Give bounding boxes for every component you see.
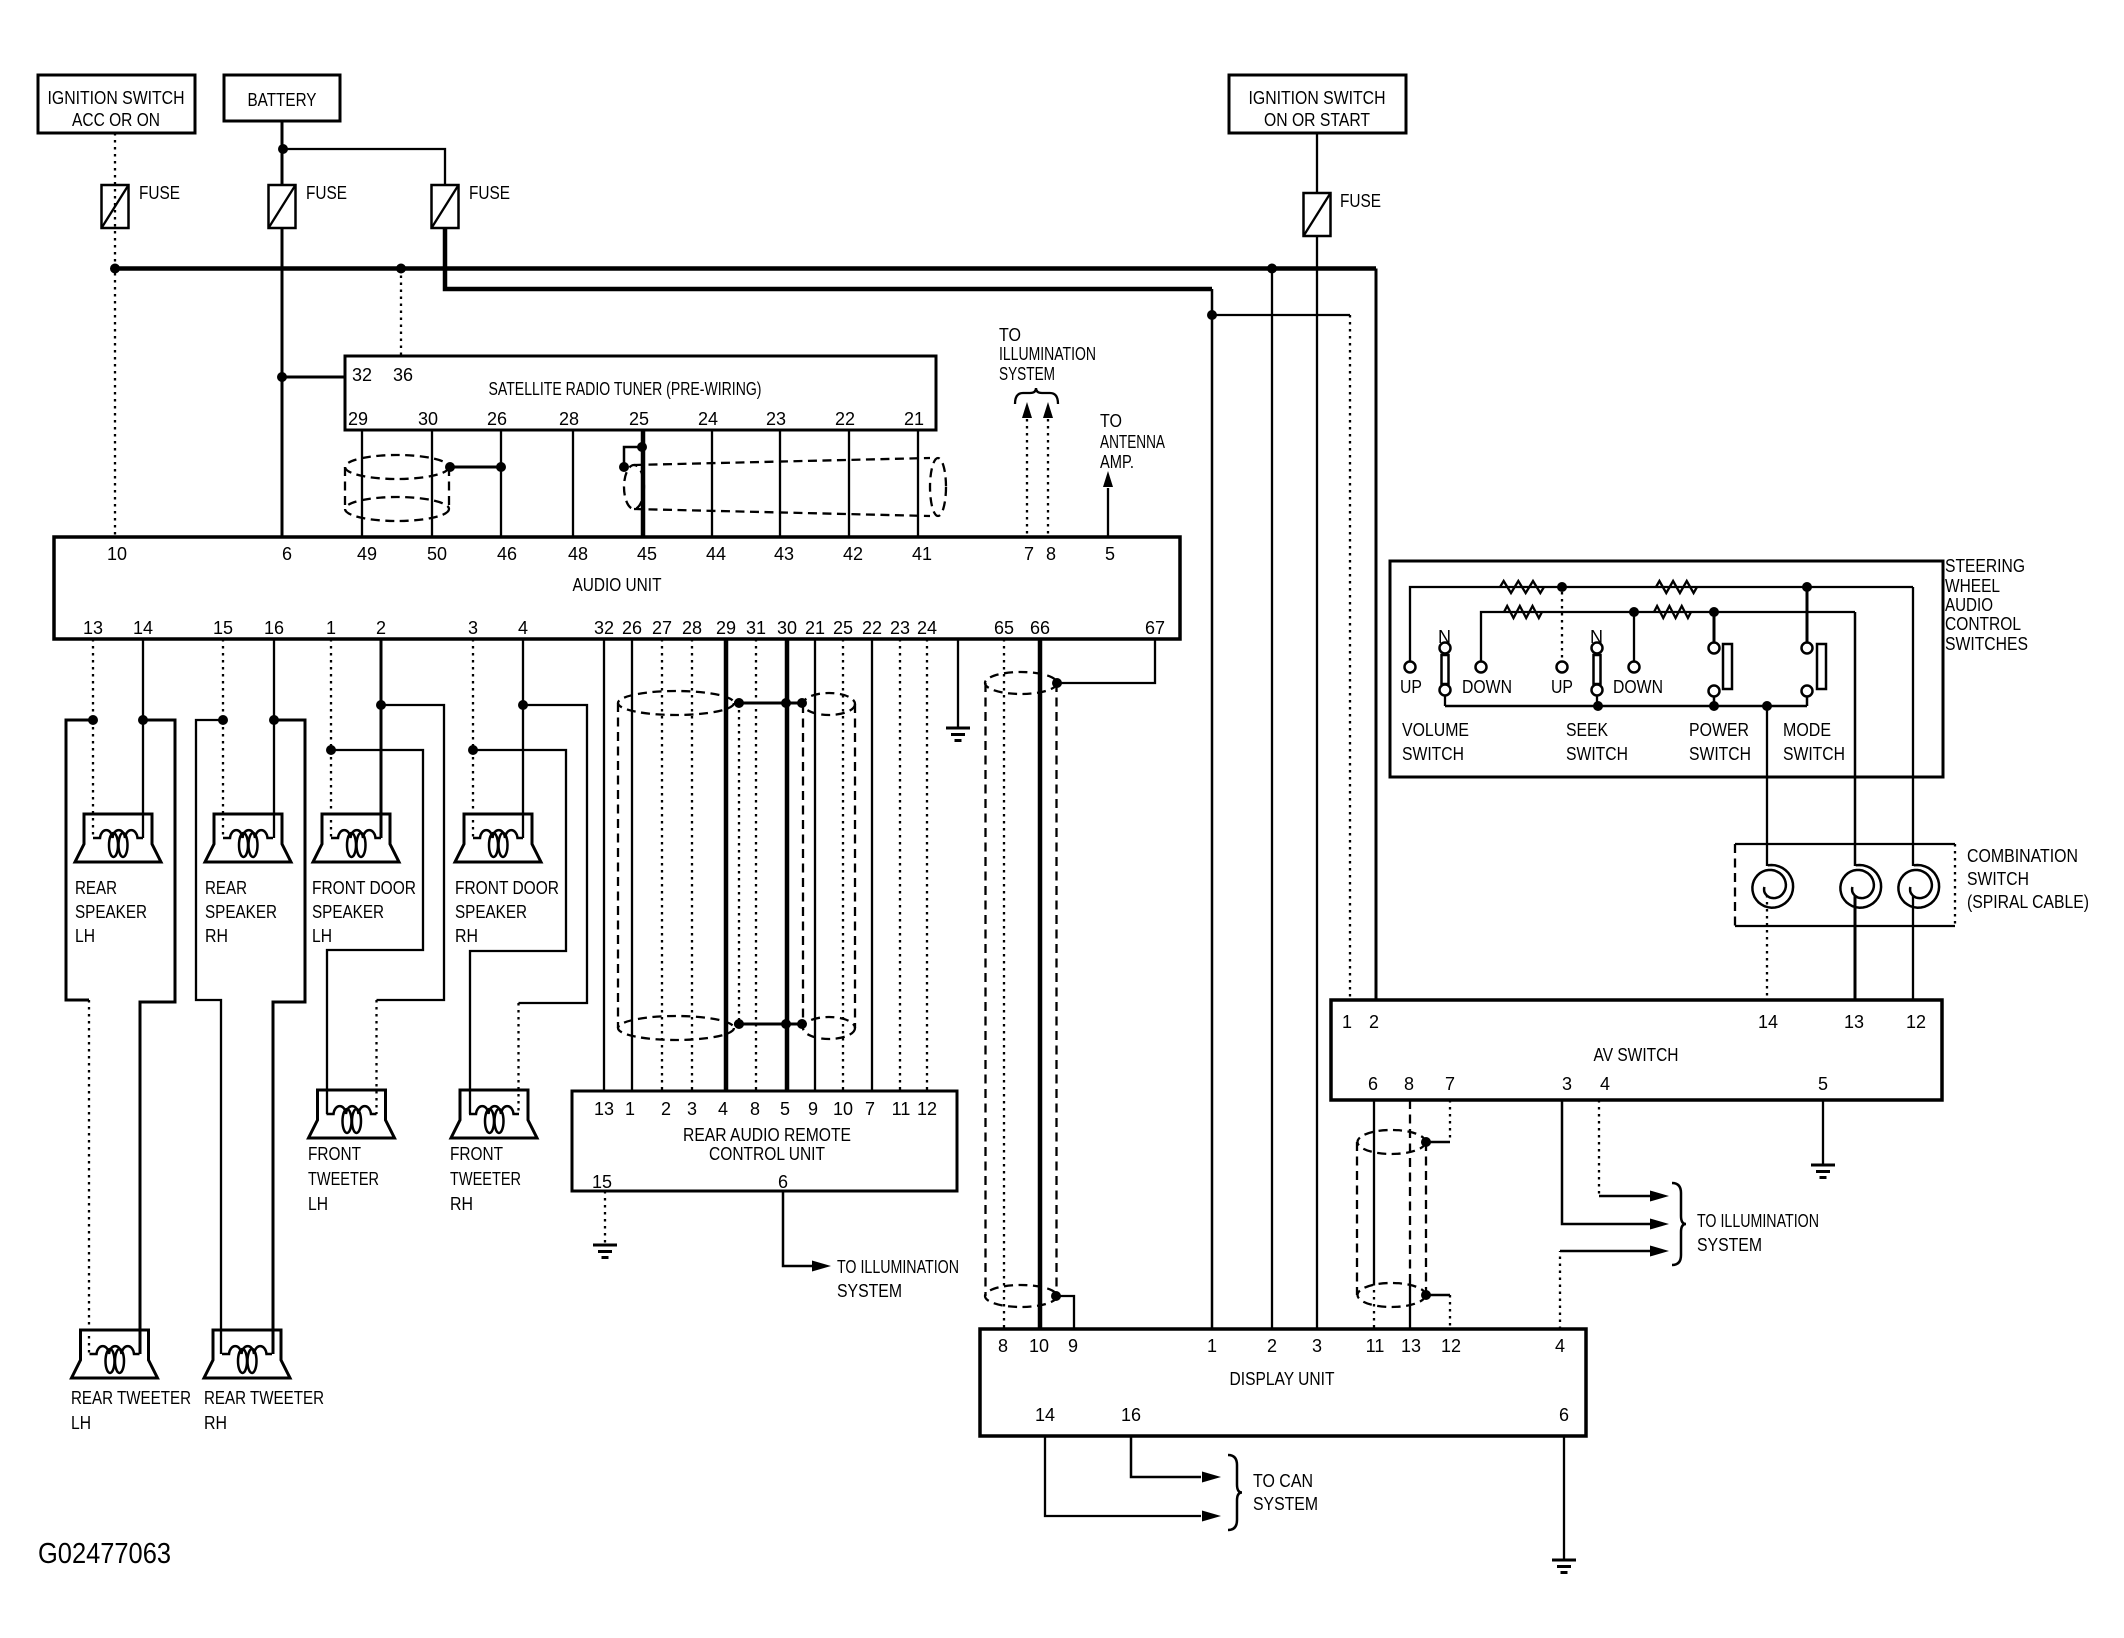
svg-text:REAR: REAR <box>205 878 247 898</box>
svg-text:G02477063: G02477063 <box>38 1538 171 1570</box>
label steering wheel audio control switches <box>1945 556 2028 654</box>
wire battery down <box>281 121 284 185</box>
combination switch box <box>1735 844 1955 926</box>
wire battery branch to fuse3 <box>283 149 445 185</box>
wire AV 4 dotted to illumination arrow <box>1599 1100 1669 1202</box>
rear speaker RH <box>205 814 291 862</box>
svg-text:25: 25 <box>629 409 649 429</box>
label rear tweeter LH <box>71 1388 191 1433</box>
svg-text:RH: RH <box>450 1194 473 1214</box>
wire front tweeter RH left route <box>470 750 566 1114</box>
wire 2 to front door speaker LH <box>380 705 383 838</box>
svg-text:IGNITION SWITCH: IGNITION SWITCH <box>48 88 185 108</box>
ground (remote unit) <box>593 1245 617 1258</box>
shielded cable S3 (large) around remote wires <box>618 691 739 1040</box>
arrow to illumination 2 (audio pin 8) <box>1043 402 1053 537</box>
svg-text:MODE: MODE <box>1783 720 1831 740</box>
wire power upper from row2 thick <box>1713 612 1716 642</box>
junction bus at ACC <box>110 264 120 274</box>
svg-text:21: 21 <box>904 409 924 429</box>
svg-text:5: 5 <box>1818 1074 1828 1094</box>
svg-text:14: 14 <box>1035 1405 1055 1425</box>
seek switch DOWN contact <box>1613 662 1663 698</box>
bus battery-fused horizontal <box>445 228 1212 289</box>
svg-text:SYSTEM: SYSTEM <box>837 1281 902 1301</box>
svg-text:67: 67 <box>1145 618 1165 638</box>
svg-text:SWITCH: SWITCH <box>1689 744 1751 764</box>
svg-text:46: 46 <box>497 544 517 564</box>
svg-text:3: 3 <box>1312 1336 1322 1356</box>
wire 16 to rear speaker RH coil <box>273 720 275 838</box>
svg-text:16: 16 <box>264 618 284 638</box>
junction row1 mode <box>1802 582 1812 592</box>
label mode switch <box>1783 720 1845 764</box>
svg-text:10: 10 <box>107 544 127 564</box>
svg-text:TO: TO <box>999 325 1021 345</box>
svg-text:10: 10 <box>1029 1336 1049 1356</box>
wire steering row1 to spiral 3 <box>1912 587 1914 866</box>
wire bus corner down to AV pin 2 <box>1375 269 1378 1001</box>
svg-text:ACC OR ON: ACC OR ON <box>72 110 160 130</box>
rear audio remote control unit box <box>572 1091 957 1192</box>
wire steering to spiral 1 <box>1766 706 1768 866</box>
junction row2 power <box>1709 607 1719 617</box>
rear speaker LH <box>75 814 161 862</box>
ignition switch ON/START box <box>1229 75 1406 133</box>
svg-text:13: 13 <box>83 618 103 638</box>
svg-text:3: 3 <box>687 1099 697 1119</box>
svg-text:65: 65 <box>994 618 1014 638</box>
resistor R1 <box>1500 581 1544 593</box>
svg-text:4: 4 <box>1555 1336 1565 1356</box>
svg-text:AUDIO UNIT: AUDIO UNIT <box>573 575 662 595</box>
wire spiral1 dotted to AV 14 <box>1766 895 1768 1000</box>
rear tweeter LH <box>72 1330 158 1378</box>
svg-text:7: 7 <box>865 1099 875 1119</box>
wire loop rear tweeter LH right <box>140 720 175 1354</box>
front tweeter LH <box>309 1090 395 1138</box>
svg-text:FUSE: FUSE <box>1340 191 1381 211</box>
wire remote pin 6 to illumination arrow <box>783 1191 831 1272</box>
svg-text:FRONT DOOR: FRONT DOOR <box>312 878 416 898</box>
volume switch DOWN contact <box>1462 662 1512 698</box>
junction 16 <box>269 715 279 725</box>
wire 1 to front door speaker LH dotted <box>330 750 332 838</box>
junction satellite pin32 tap <box>277 372 287 382</box>
fuse F2 (battery) <box>269 183 348 228</box>
svg-text:LH: LH <box>312 926 332 946</box>
wires audio to rear remote control unit <box>604 639 927 1091</box>
wire 15 to rear speaker RH coil dotted <box>222 720 224 838</box>
svg-text:SWITCH: SWITCH <box>1566 744 1628 764</box>
svg-text:(SPIRAL CABLE): (SPIRAL CABLE) <box>1967 892 2089 912</box>
svg-text:POWER: POWER <box>1689 720 1749 740</box>
svg-text:SYSTEM: SYSTEM <box>1697 1235 1762 1255</box>
svg-text:26: 26 <box>487 409 507 429</box>
wire audio 65 dotted to display 8 <box>1003 639 1005 1329</box>
junction bus at satellite 36 <box>396 264 406 274</box>
wire audio 4 <box>522 639 524 705</box>
wire fuse4 to display pin 3 <box>1316 237 1318 1329</box>
svg-text:15: 15 <box>592 1172 612 1192</box>
svg-text:6: 6 <box>778 1172 788 1192</box>
shield S2 drain to wire 45 <box>619 442 647 472</box>
ground (display unit) <box>1552 1560 1576 1573</box>
wire AV 8 to display 13 <box>1409 1100 1411 1329</box>
audio unit box <box>54 537 1180 639</box>
svg-text:IGNITION SWITCH: IGNITION SWITCH <box>1249 88 1386 108</box>
junction bus at display 2 drop <box>1267 264 1277 274</box>
svg-text:CONTROL UNIT: CONTROL UNIT <box>709 1144 825 1164</box>
svg-text:50: 50 <box>427 544 447 564</box>
svg-text:COMBINATION: COMBINATION <box>1967 846 2078 866</box>
wire bus2 corner down to display pin 1 <box>1211 289 1214 1329</box>
svg-text:9: 9 <box>808 1099 818 1119</box>
wire AV 6 to display 11 <box>1373 1100 1375 1329</box>
wire fuse2 to audio pin 6 <box>281 228 284 537</box>
svg-text:AV SWITCH: AV SWITCH <box>1594 1045 1679 1065</box>
svg-text:1: 1 <box>1207 1336 1217 1356</box>
svg-text:5: 5 <box>780 1099 790 1119</box>
svg-text:2: 2 <box>376 618 386 638</box>
wire display 6 to ground <box>1563 1436 1565 1560</box>
svg-text:ANTENNA: ANTENNA <box>1100 432 1165 452</box>
svg-text:13: 13 <box>594 1099 614 1119</box>
label to-illumination top <box>999 325 1096 384</box>
junction bus2 branch <box>1207 310 1217 320</box>
svg-text:1: 1 <box>326 618 336 638</box>
svg-text:TO CAN: TO CAN <box>1253 1471 1313 1491</box>
svg-text:4: 4 <box>518 618 528 638</box>
svg-text:REAR TWEETER: REAR TWEETER <box>71 1388 191 1408</box>
svg-text:DISPLAY UNIT: DISPLAY UNIT <box>1230 1369 1335 1389</box>
svg-text:8: 8 <box>750 1099 760 1119</box>
wire loop rear tweeter LH left <box>66 720 93 1354</box>
shielded cable S4 around remote wires 31/30 <box>803 693 855 1039</box>
label front door speaker RH <box>455 878 559 946</box>
svg-text:SWITCH: SWITCH <box>1967 869 2029 889</box>
battery box <box>224 75 340 121</box>
arrow to illumination 1 (audio pin 7) <box>1022 402 1032 537</box>
shielded cable S2 horizontal tube <box>624 458 946 516</box>
display unit box <box>980 1329 1586 1436</box>
seek switch N contact <box>1590 627 1603 706</box>
svg-text:49: 49 <box>357 544 377 564</box>
spiral cable 1 <box>1752 865 1793 908</box>
svg-text:45: 45 <box>637 544 657 564</box>
wires satellite to audio unit <box>362 430 918 537</box>
svg-text:6: 6 <box>282 544 292 564</box>
wire seek DOWN from row2 <box>1633 612 1635 661</box>
label power switch <box>1689 720 1751 764</box>
junction 3 <box>468 745 478 755</box>
fuse F3 (battery branch) <box>432 183 511 228</box>
wire front tweeter RH right route <box>519 705 588 1114</box>
wire loop rear tweeter RH left <box>196 720 223 1354</box>
svg-text:13: 13 <box>1401 1336 1421 1356</box>
wire satellite pin 36 dotted drop <box>400 269 402 357</box>
wire steering row2 to spiral 2 <box>1854 612 1857 866</box>
svg-text:12: 12 <box>1906 1012 1926 1032</box>
label to-antenna-amp <box>1100 411 1165 472</box>
svg-text:RH: RH <box>204 1413 227 1433</box>
svg-text:12: 12 <box>917 1099 937 1119</box>
svg-text:SPEAKER: SPEAKER <box>312 902 384 922</box>
label front door speaker LH <box>312 878 416 946</box>
wire AV 3 to illumination arrow <box>1562 1100 1669 1230</box>
wire audio 3 dotted <box>472 639 474 750</box>
svg-text:SYSTEM: SYSTEM <box>1253 1494 1318 1514</box>
wire seek UP dotted from row1 <box>1561 592 1563 661</box>
fuse F4 (ignition ON) <box>1304 191 1382 236</box>
junction 15 <box>218 715 228 725</box>
svg-text:SEEK: SEEK <box>1566 720 1608 740</box>
shield S1 drain to wire 46 <box>445 462 506 472</box>
mode switch contacts <box>1802 643 1827 707</box>
steering wheel audio control switches box <box>1390 561 1943 777</box>
svg-text:UP: UP <box>1400 677 1422 697</box>
resistor R4 <box>1654 606 1691 618</box>
svg-text:3: 3 <box>1562 1074 1572 1094</box>
shield tap bottom S3-S4 <box>734 1019 807 1029</box>
wire satellite pin32 tap <box>282 376 345 379</box>
wire mode upper from row1 thick <box>1806 587 1809 642</box>
svg-text:RH: RH <box>455 926 478 946</box>
svg-text:AMP.: AMP. <box>1100 452 1134 472</box>
svg-text:SPEAKER: SPEAKER <box>455 902 527 922</box>
svg-text:7: 7 <box>1024 544 1034 564</box>
junction 1 <box>326 745 336 755</box>
wire spiral3 to AV 12 <box>1912 895 1914 1000</box>
svg-text:SPEAKER: SPEAKER <box>75 902 147 922</box>
svg-text:1: 1 <box>1342 1012 1352 1032</box>
svg-text:SPEAKER: SPEAKER <box>205 902 277 922</box>
wire shield S5 bottom to display 9 <box>1051 1291 1074 1329</box>
svg-text:TWEETER: TWEETER <box>450 1169 521 1189</box>
spiral cable 2 <box>1840 865 1881 908</box>
svg-text:FRONT DOOR: FRONT DOOR <box>455 878 559 898</box>
bus ACC horizontal <box>115 266 1376 271</box>
shield S6 top drain <box>1421 1137 1450 1147</box>
label front tweeter RH <box>450 1144 521 1214</box>
label combination switch <box>1967 846 2089 912</box>
junction 2 <box>376 700 386 710</box>
row1 wire <box>1410 587 1913 661</box>
resistor R2 <box>1656 581 1697 593</box>
wire remote pin 15 dotted to ground <box>604 1191 606 1245</box>
wire audio 1 dotted <box>330 639 332 750</box>
svg-text:TO ILLUMINATION: TO ILLUMINATION <box>1697 1211 1819 1231</box>
wire ignition-ON box to fuse4 <box>1316 133 1318 193</box>
arrow to antenna amp (audio pin 5) <box>1103 471 1113 537</box>
shield S6 bottom drain to display 12 dotted <box>1421 1290 1450 1329</box>
wire audio 2 thick <box>380 639 383 705</box>
svg-text:8: 8 <box>1046 544 1056 564</box>
svg-text:28: 28 <box>559 409 579 429</box>
svg-text:11: 11 <box>892 1099 911 1119</box>
svg-text:30: 30 <box>418 409 438 429</box>
wire audio 13 dotted <box>92 639 94 720</box>
wire audio 66 thick to display 10 <box>1038 639 1043 1329</box>
svg-text:SWITCHES: SWITCHES <box>1945 634 2028 654</box>
svg-text:42: 42 <box>843 544 863 564</box>
ground (AV switch) <box>1811 1165 1835 1178</box>
brace CAN system <box>1228 1455 1242 1530</box>
volume switch UP contact <box>1400 662 1422 698</box>
wire display 16 to CAN arrow <box>1131 1436 1221 1483</box>
svg-text:16: 16 <box>1121 1405 1141 1425</box>
svg-text:24: 24 <box>917 618 937 638</box>
svg-text:LH: LH <box>75 926 95 946</box>
fuse F1 (ACC) <box>102 183 181 228</box>
ignition switch ACC box <box>38 75 195 133</box>
spiral cable 3 <box>1898 865 1939 908</box>
label rear tweeter RH <box>204 1388 324 1433</box>
switch bottom bus <box>1445 705 1807 708</box>
svg-text:4: 4 <box>718 1099 728 1119</box>
wire 4 to front door speaker RH <box>522 705 524 838</box>
svg-text:14: 14 <box>133 618 153 638</box>
svg-text:VOLUME: VOLUME <box>1402 720 1469 740</box>
label seek switch <box>1566 720 1628 764</box>
svg-text:41: 41 <box>912 544 932 564</box>
seek switch UP contact <box>1551 662 1573 698</box>
svg-text:23: 23 <box>890 618 910 638</box>
junction 14 <box>138 715 148 725</box>
label to-CAN system <box>1253 1471 1318 1514</box>
svg-text:BATTERY: BATTERY <box>248 90 317 110</box>
volume switch N contact <box>1438 627 1451 706</box>
svg-text:ILLUMINATION: ILLUMINATION <box>999 344 1096 364</box>
svg-text:WHEEL: WHEEL <box>1945 576 2000 596</box>
svg-text:13: 13 <box>1844 1012 1864 1032</box>
svg-text:48: 48 <box>568 544 588 564</box>
svg-text:REAR AUDIO REMOTE: REAR AUDIO REMOTE <box>683 1125 851 1145</box>
svg-text:SYSTEM: SYSTEM <box>999 364 1055 384</box>
label to-illumination (remote) <box>837 1257 959 1301</box>
svg-text:DOWN: DOWN <box>1613 677 1663 697</box>
wire 13 to rear speaker LH coil dotted <box>92 720 94 838</box>
brace illumination (AV) <box>1672 1183 1686 1265</box>
svg-text:TWEETER: TWEETER <box>308 1169 379 1189</box>
wire 3 to front door speaker RH dotted <box>472 750 474 838</box>
svg-text:5: 5 <box>1105 544 1115 564</box>
svg-text:4: 4 <box>1600 1074 1610 1094</box>
svg-text:LH: LH <box>71 1413 91 1433</box>
svg-text:15: 15 <box>213 618 233 638</box>
shielded cable S6 around AV-display wires <box>1357 1130 1426 1307</box>
junction bus power <box>1709 701 1719 711</box>
wire AV 5 to ground <box>1822 1100 1824 1165</box>
wire front tweeter LH right route <box>377 705 445 1114</box>
svg-text:FRONT: FRONT <box>308 1144 361 1164</box>
svg-text:2: 2 <box>1267 1336 1277 1356</box>
svg-text:22: 22 <box>835 409 855 429</box>
brace over illumination arrows <box>1015 388 1058 404</box>
svg-text:2: 2 <box>661 1099 671 1119</box>
svg-text:32: 32 <box>352 365 372 385</box>
svg-text:RH: RH <box>205 926 228 946</box>
wire audio 14 <box>142 639 144 720</box>
svg-text:23: 23 <box>766 409 786 429</box>
wire audio 67 to shield S5 top <box>1052 639 1155 688</box>
svg-text:REAR: REAR <box>75 878 117 898</box>
svg-text:7: 7 <box>1445 1074 1455 1094</box>
svg-text:32: 32 <box>594 618 614 638</box>
svg-text:22: 22 <box>862 618 882 638</box>
label rear speaker RH <box>205 878 277 946</box>
wire satellite 25 to audio 45 thick <box>641 430 646 537</box>
front door speaker LH <box>313 814 399 862</box>
wire 14 to rear speaker LH coil <box>142 720 144 838</box>
svg-text:43: 43 <box>774 544 794 564</box>
svg-text:25: 25 <box>833 618 853 638</box>
front tweeter RH <box>451 1090 537 1138</box>
svg-text:FUSE: FUSE <box>306 183 347 203</box>
svg-text:STEERING: STEERING <box>1945 556 2025 576</box>
svg-text:UP: UP <box>1551 677 1573 697</box>
junction 13 <box>88 715 98 725</box>
junction 4 <box>518 700 528 710</box>
svg-text:14: 14 <box>1758 1012 1778 1032</box>
svg-text:26: 26 <box>622 618 642 638</box>
svg-text:29: 29 <box>348 409 368 429</box>
svg-text:6: 6 <box>1368 1074 1378 1094</box>
svg-text:9: 9 <box>1068 1336 1078 1356</box>
svg-text:66: 66 <box>1030 618 1050 638</box>
junction row2 seek-down <box>1629 607 1639 617</box>
resistor R3 <box>1504 606 1542 618</box>
power switch contacts <box>1709 643 1733 707</box>
svg-text:LH: LH <box>308 1194 328 1214</box>
svg-text:6: 6 <box>1559 1405 1569 1425</box>
label to-illumination (AV) <box>1697 1211 1819 1255</box>
wire display 4 dotted to illumination arrow <box>1560 1246 1669 1330</box>
svg-text:36: 36 <box>393 365 413 385</box>
label volume switch <box>1402 720 1469 764</box>
wire branch to AV pin 1 dotted <box>1212 314 1350 316</box>
shielded cable S5 around wires 65/66 <box>985 672 1057 1307</box>
svg-text:27: 27 <box>652 618 672 638</box>
junction row1 seek <box>1557 582 1567 592</box>
svg-text:FUSE: FUSE <box>469 183 510 203</box>
ground (audio unit) <box>946 728 970 741</box>
satellite radio tuner box <box>345 356 936 430</box>
svg-text:SWITCH: SWITCH <box>1402 744 1464 764</box>
svg-text:TO ILLUMINATION: TO ILLUMINATION <box>837 1257 959 1277</box>
svg-text:3: 3 <box>468 618 478 638</box>
junction bus seek-N <box>1593 701 1603 711</box>
wire AV 7 dotted to shield S6 <box>1449 1100 1451 1142</box>
svg-text:TO: TO <box>1100 411 1122 431</box>
svg-text:12: 12 <box>1441 1336 1461 1356</box>
svg-text:8: 8 <box>998 1336 1008 1356</box>
svg-text:DOWN: DOWN <box>1462 677 1512 697</box>
svg-text:44: 44 <box>706 544 726 564</box>
svg-text:REAR TWEETER: REAR TWEETER <box>204 1388 324 1408</box>
wire audio 15 dotted <box>222 639 224 720</box>
rear tweeter RH <box>204 1330 290 1378</box>
audio unit ground wire <box>957 639 959 728</box>
svg-text:30: 30 <box>777 618 797 638</box>
svg-text:28: 28 <box>682 618 702 638</box>
wire front tweeter LH left route <box>327 750 423 1114</box>
svg-text:29: 29 <box>716 618 736 638</box>
wire display 14 to CAN arrow <box>1045 1436 1221 1522</box>
junction battery branch <box>278 144 288 154</box>
svg-text:11: 11 <box>1366 1336 1385 1356</box>
wire ignition-ACC dotted to audio pin 10 <box>114 133 116 537</box>
